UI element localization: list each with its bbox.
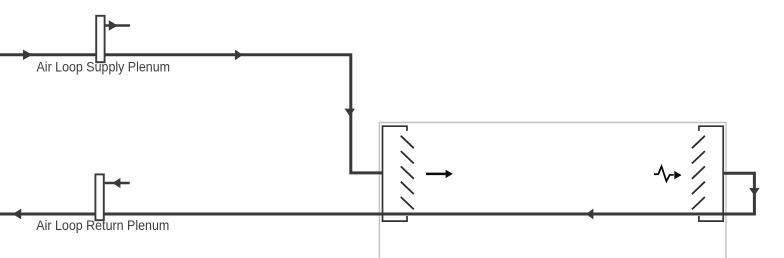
arrow: return drop down arrow	[749, 188, 759, 196]
symbol: zone load squiggle with arrow	[654, 166, 682, 181]
wire: return plenum inlet stub	[105, 182, 130, 185]
hatch: zone inlet diffuser slashes	[401, 136, 414, 210]
arrow: zone airflow arrow	[426, 170, 453, 178]
wire: supply plenum outlet stub	[105, 24, 130, 27]
arrow: supply line flow arrow right	[235, 50, 243, 61]
component: Air Loop Return Plenum (vertical box)	[95, 174, 103, 220]
component: zone outlet grille (bracket)	[699, 126, 723, 221]
component: Air Loop Supply Plenum (vertical box)	[96, 16, 104, 62]
svg-text:Air Loop Return Plenum: Air Loop Return Plenum	[36, 218, 169, 233]
wire: return duct line	[0, 213, 756, 216]
component: zone inlet diffuser (bracket)	[383, 126, 408, 221]
arrow: return line flow arrow right	[586, 209, 593, 220]
arrow: supply drop down arrow	[345, 109, 355, 117]
svg-text:Air Loop Supply Plenum: Air Loop Supply Plenum	[37, 59, 171, 74]
arrow: supply line flow arrow left	[23, 50, 32, 60]
hatch: zone outlet grille slashes	[692, 136, 705, 210]
arrow: return plenum inlet arrow	[112, 178, 120, 188]
wire: supply duct line from plenum to zone inlet	[0, 55, 383, 173]
arrow: return line flow arrow left	[13, 209, 22, 220]
zone box (light gray enclosure)	[379, 123, 726, 258]
arrow: supply plenum outlet arrow	[109, 20, 118, 31]
wire: zone outlet to return drop	[723, 173, 754, 214]
